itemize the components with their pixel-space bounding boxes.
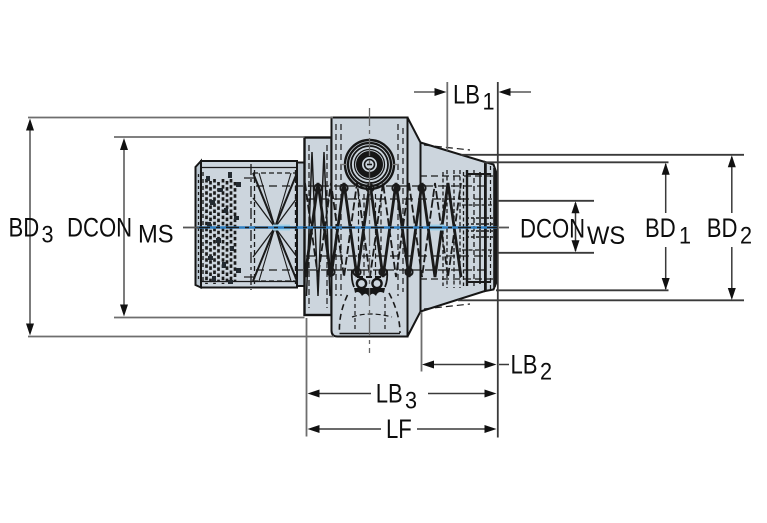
svg-text:MS: MS [138, 221, 174, 249]
svg-text:DCON: DCON [520, 214, 585, 244]
svg-text:1: 1 [483, 87, 495, 114]
svg-text:LB: LB [511, 351, 538, 381]
svg-text:BD: BD [9, 214, 40, 244]
svg-text:LB: LB [376, 380, 403, 410]
svg-text:3: 3 [405, 387, 417, 414]
svg-text:2: 2 [540, 357, 552, 384]
svg-text:3: 3 [42, 220, 54, 247]
svg-text:BD: BD [707, 214, 738, 244]
svg-text:1: 1 [679, 221, 691, 248]
svg-text:BD: BD [645, 214, 676, 244]
svg-text:2: 2 [740, 221, 752, 248]
svg-text:LB: LB [453, 80, 480, 110]
svg-text:DCON: DCON [67, 214, 132, 244]
svg-text:LF: LF [386, 415, 412, 445]
svg-text:WS: WS [587, 222, 625, 250]
